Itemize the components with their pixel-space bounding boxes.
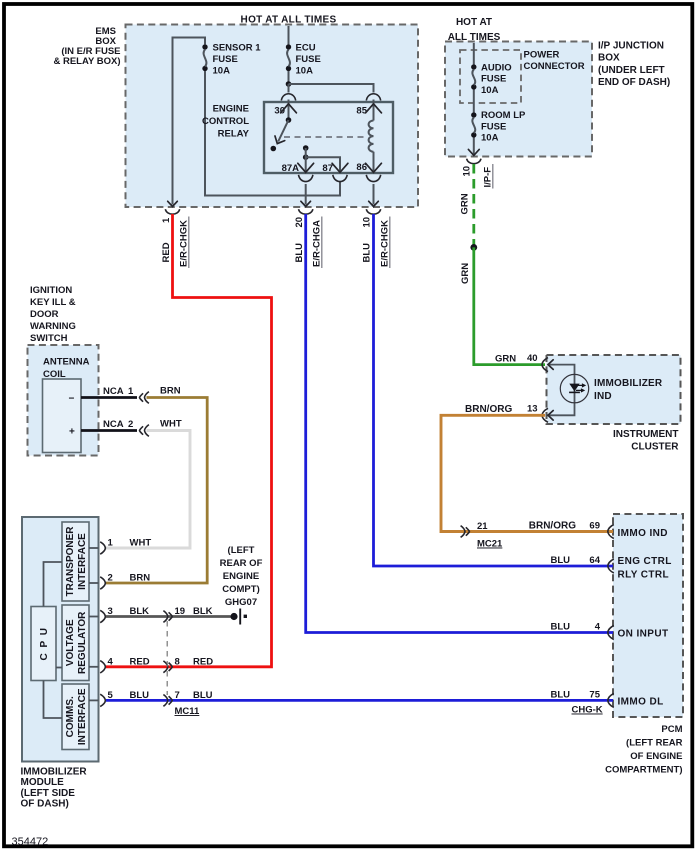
svg-text:RED: RED xyxy=(161,242,172,262)
label IGNITION KEY ILL and DOOR WARNING SWITCH xyxy=(30,285,76,344)
svg-text:RED: RED xyxy=(193,656,213,667)
cluster internal wire with left arrows xyxy=(548,360,575,420)
connector arc EMS pin 10 xyxy=(366,209,380,214)
svg-text:WHT: WHT xyxy=(130,538,152,549)
connector arc PCM pin 69 xyxy=(608,525,614,539)
svg-text:IND: IND xyxy=(594,391,612,402)
relay coil xyxy=(366,100,382,152)
node HOT AT ALL TIMES (EMS feed) xyxy=(241,15,337,26)
relay pin 87 label xyxy=(322,163,333,174)
wire relay bridge to pin 87 with down arrow xyxy=(306,157,348,172)
svg-text:ALL TIMES: ALL TIMES xyxy=(448,32,501,43)
svg-text:ENGINE: ENGINE xyxy=(223,571,259,582)
svg-text:BLU: BLU xyxy=(193,690,213,701)
connector arc below relay pin 87A xyxy=(299,175,313,182)
svg-text:21: 21 xyxy=(477,521,488,532)
svg-text:ANTENNA: ANTENNA xyxy=(43,357,90,368)
connector arc cluster pin 13 xyxy=(542,408,548,422)
antenna coil minus terminal xyxy=(69,394,75,405)
wire BRN from NCA1 to module pin 2 xyxy=(106,398,207,584)
svg-text:BLU: BLU xyxy=(550,555,570,566)
connector arc PCM pin 64 xyxy=(608,559,614,573)
svg-text:BLU: BLU xyxy=(550,689,570,700)
antenna coil body xyxy=(43,379,82,453)
svg-text:COMPT): COMPT) xyxy=(222,584,259,595)
label IMMOBILIZER MODULE location xyxy=(21,767,88,810)
PCM pin label ON INPUT xyxy=(618,629,669,640)
svg-text:BRN/ORG: BRN/ORG xyxy=(465,404,512,415)
svg-text:ENGINE: ENGINE xyxy=(213,104,249,115)
svg-text:10A: 10A xyxy=(213,66,231,77)
svg-text:RELAY: RELAY xyxy=(218,129,250,140)
svg-text:(LEFT SIDE: (LEFT SIDE xyxy=(21,788,76,799)
net label I/P-F (rotated, underlined) xyxy=(483,164,494,189)
net label CHG-K (underlined) xyxy=(572,705,603,716)
I/P junction box label xyxy=(598,41,670,89)
svg-text:CONNECTOR: CONNECTOR xyxy=(524,61,585,72)
svg-text:ROOM LP: ROOM LP xyxy=(481,110,526,121)
rotated label COMMS. INTERFACE xyxy=(65,688,88,745)
connector label MC11 (underlined) xyxy=(175,706,201,717)
wire ECU fuse to junction xyxy=(288,71,290,84)
svg-text:(UNDER LEFT: (UNDER LEFT xyxy=(598,65,665,76)
junction node below ECU fuse xyxy=(286,81,292,87)
pin label NCA 2 xyxy=(103,419,133,430)
rotated label TRANSPONDER INTERFACE xyxy=(65,526,88,597)
svg-text:AUDIO: AUDIO xyxy=(481,62,512,73)
power connector (dashed) xyxy=(460,50,521,103)
LED immobilizer indicator xyxy=(560,374,588,402)
wire junction to relay pin 85 xyxy=(289,84,374,93)
svg-text:VOLTAGE: VOLTAGE xyxy=(65,619,76,666)
EMS box (dashed, E/R fuse and relay box) xyxy=(126,25,419,208)
connector arc EMS pin 20 xyxy=(299,209,313,214)
wire relay pin 30 entry with up arrow xyxy=(281,100,297,121)
module pin 3 stub xyxy=(89,616,99,618)
svg-text:2: 2 xyxy=(108,573,113,584)
wire NCA 2 black stub xyxy=(81,429,137,432)
connector label MC21 (underlined) xyxy=(477,539,503,550)
I/P junction box (dashed) xyxy=(445,42,592,157)
antenna coil plus terminal xyxy=(69,427,75,438)
relay mechanical link (dashed) xyxy=(284,136,368,138)
wire sensor fuse top to EMS pin 1 exit xyxy=(168,38,205,207)
svg-text:OF ENGINE: OF ENGINE xyxy=(630,751,682,762)
svg-text:CONTROL: CONTROL xyxy=(202,116,249,127)
wire label GRN at cluster pin 40 xyxy=(495,354,516,365)
svg-text:1: 1 xyxy=(108,538,114,549)
connector arc above relay pin 30 xyxy=(281,94,295,101)
svg-text:END OF DASH): END OF DASH) xyxy=(598,77,670,88)
svg-text:87A: 87A xyxy=(282,163,300,174)
svg-text:BLU: BLU xyxy=(362,243,373,263)
wire label BLU and pin 64 xyxy=(550,555,600,566)
wire RED from EMS pin 1 to immobilizer module pin 4 xyxy=(106,214,272,667)
svg-text:IMMO IND: IMMO IND xyxy=(618,528,668,539)
dashed link MC11 connector xyxy=(166,621,168,695)
wire CPU to comms interface xyxy=(44,681,63,719)
svg-text:ON INPUT: ON INPUT xyxy=(618,629,669,640)
wire label BLU and pin 4 xyxy=(550,622,600,633)
connector arc below relay pin 87 xyxy=(333,175,347,182)
connector NCA pin 1 xyxy=(140,392,149,404)
pin label 8 and wire label RED xyxy=(175,656,214,667)
module pin 5 stub xyxy=(89,699,99,701)
wire label GRN (rotated, lower) xyxy=(460,263,471,284)
svg-text:I/P-F: I/P-F xyxy=(483,167,494,188)
label IMMOBILIZER IND xyxy=(594,378,663,402)
wire BLU module pin 5 to PCM pin 75 IMMO DL xyxy=(106,699,613,702)
relay switch contact node xyxy=(271,146,277,152)
svg-text:1: 1 xyxy=(128,386,134,397)
wire WHT from NCA2 to module pin 1 xyxy=(106,431,190,549)
svg-text:TRANSPONER: TRANSPONER xyxy=(65,526,76,597)
connector MC21 xyxy=(461,526,470,538)
svg-text:FUSE: FUSE xyxy=(481,74,506,85)
relay pin 30 label xyxy=(274,106,285,117)
wire label WHT (NCA2) xyxy=(160,419,182,430)
rotated wire label RED xyxy=(161,242,172,262)
svg-text:4: 4 xyxy=(108,656,114,667)
svg-text:COIL: COIL xyxy=(43,369,66,380)
svg-text:POWER: POWER xyxy=(524,50,560,61)
fuse ROOM LP FUSE 10A xyxy=(471,110,526,144)
connector arc module pin 1 xyxy=(100,542,105,554)
PCM box (dashed) xyxy=(613,514,683,717)
engine control relay box xyxy=(264,102,393,173)
pin label 5 and wire label BLU xyxy=(108,690,150,701)
svg-text:10A: 10A xyxy=(481,133,499,144)
svg-text:2: 2 xyxy=(128,419,133,430)
wire relay 87A to EMS pin 20 exit xyxy=(301,184,311,207)
svg-text:−: − xyxy=(69,394,75,405)
svg-text:8: 8 xyxy=(175,656,180,667)
rotated pin label 1 (EMS exit) xyxy=(161,217,172,223)
svg-text:FUSE: FUSE xyxy=(213,54,238,65)
svg-text:INSTRUMENT: INSTRUMENT xyxy=(613,429,679,440)
ground location label GHG07 xyxy=(220,545,263,608)
wire sensor fuse bottom to relay pin 87 xyxy=(205,71,340,196)
svg-text:I/P JUNCTION: I/P JUNCTION xyxy=(598,41,664,52)
label POWER CONNECTOR xyxy=(524,50,585,73)
label PCM location xyxy=(605,724,683,776)
svg-text:INTERFACE: INTERFACE xyxy=(77,533,88,590)
wire CPU to transponder interface xyxy=(44,562,63,607)
svg-text:WHT: WHT xyxy=(160,419,182,430)
connector arc module pin 5 xyxy=(100,694,105,706)
wire BLK module pin 3 to ground xyxy=(106,615,231,618)
connector arc PCM pin 75 xyxy=(608,693,614,707)
svg-text:REAR OF: REAR OF xyxy=(220,558,263,569)
module pin 4 stub xyxy=(89,666,99,668)
connector MC11 pin 8 xyxy=(163,661,172,673)
svg-text:REGULATOR: REGULATOR xyxy=(77,611,88,674)
svg-text:KEY ILL &: KEY ILL & xyxy=(30,297,76,308)
connector arc I/P pin 10 xyxy=(467,159,481,164)
svg-text:WARNING: WARNING xyxy=(30,321,76,332)
relay contact node 87A top xyxy=(303,145,309,151)
svg-text:10: 10 xyxy=(462,166,473,177)
connector arc module pin 3 xyxy=(100,610,105,622)
connector MC11 pin 19 xyxy=(163,611,172,623)
svg-text:20: 20 xyxy=(294,217,305,228)
PCM pin label ENG CTRL RLY CTRL xyxy=(618,556,672,581)
svg-text:FUSE: FUSE xyxy=(481,121,506,132)
connector MC11 pin 7 xyxy=(163,695,172,707)
svg-text:CLUSTER: CLUSTER xyxy=(631,441,679,452)
transponder interface box xyxy=(62,522,89,601)
svg-text:NCA: NCA xyxy=(103,419,124,430)
svg-text:ENG CTRL: ENG CTRL xyxy=(618,556,672,567)
relay label ENGINE CONTROL RELAY xyxy=(202,104,250,140)
svg-text:(LEFT REAR: (LEFT REAR xyxy=(626,738,683,749)
svg-text:69: 69 xyxy=(589,521,600,532)
rotated pin label 10 (EMS exit) xyxy=(362,217,373,228)
splice node on GRN wire xyxy=(470,244,477,251)
fuse ECU FUSE 10A xyxy=(286,43,321,77)
ground GHG07 xyxy=(230,609,247,625)
svg-text:C P U: C P U xyxy=(39,627,50,661)
connector arc below relay pin 86 xyxy=(366,175,380,182)
svg-text:IMMO DL: IMMO DL xyxy=(618,696,664,707)
node HOT AT ALL TIMES (I/P feed) xyxy=(448,17,501,43)
wire BLU from EMS pin 20 to PCM pin 4 ON INPUT xyxy=(306,214,613,633)
connector arc PCM pin 4 xyxy=(608,626,614,640)
svg-text:30: 30 xyxy=(274,106,285,117)
svg-text:GHG07: GHG07 xyxy=(225,597,257,608)
wire GRN dashed from I/P pin 10 to splice xyxy=(472,164,475,247)
svg-text:85: 85 xyxy=(356,106,367,117)
pin label 13 (cluster) xyxy=(527,404,538,415)
pin label 4 and wire label RED xyxy=(108,656,150,667)
pin label 19 and wire label BLK xyxy=(175,606,213,617)
PCM pin label IMMO IND xyxy=(618,528,668,539)
svg-text:GRN: GRN xyxy=(460,263,471,284)
svg-text:HOT AT: HOT AT xyxy=(456,17,492,28)
wire NCA 1 black stub xyxy=(81,396,137,399)
EMS box label xyxy=(53,26,120,67)
wire relay 86 to EMS pin 10 exit xyxy=(369,184,379,207)
svg-text:FUSE: FUSE xyxy=(296,54,321,65)
pin label 10 (I/P exit, rotated) xyxy=(462,166,473,177)
wire room fuse to I/P pin 10 exit xyxy=(468,138,479,156)
svg-text:COMPARTMENT): COMPARTMENT) xyxy=(605,765,682,776)
wire BRN/ORG cluster pin 13 to PCM pin 69 xyxy=(441,415,613,531)
svg-text:E/R-CHGA: E/R-CHGA xyxy=(312,220,323,267)
voltage regulator box xyxy=(62,605,89,681)
connector arc EMS pin 1 xyxy=(165,209,179,214)
label ANTENNA COIL xyxy=(43,357,90,381)
wire I/P feed to audio fuse xyxy=(473,43,475,64)
svg-text:NCA: NCA xyxy=(103,386,124,397)
label INSTRUMENT CLUSTER xyxy=(613,429,679,453)
rotated net label E/R-CHGK pin1 (underlined) xyxy=(179,217,190,269)
wire label BRN/ORG at cluster pin 13 xyxy=(465,404,512,415)
connector NCA pin 2 xyxy=(140,425,149,437)
pin label 21 (MC21) xyxy=(477,521,488,532)
connector arc module pin 4 xyxy=(100,661,105,673)
wire relay coil to pin 86 with down arrow xyxy=(366,152,382,173)
svg-text:BLU: BLU xyxy=(550,622,570,633)
CPU box xyxy=(31,607,56,681)
svg-text:64: 64 xyxy=(589,555,600,566)
pin label NCA 1 xyxy=(103,386,134,397)
wire EMS feed to ECU fuse xyxy=(288,26,290,44)
svg-text:10A: 10A xyxy=(296,66,314,77)
svg-text:COMMS.: COMMS. xyxy=(65,696,76,737)
rotated label VOLTAGE REGULATOR xyxy=(65,611,88,674)
module pin 2 stub xyxy=(89,582,99,584)
comms interface box xyxy=(62,684,89,750)
fuse AUDIO FUSE 10A xyxy=(471,62,512,96)
svg-text:BRN: BRN xyxy=(130,573,151,584)
antenna coil outer box (dashed) xyxy=(28,345,99,456)
pin label 2 and wire label BRN xyxy=(108,573,151,584)
svg-text:354472: 354472 xyxy=(12,836,49,848)
pin label 7 and wire label BLU xyxy=(175,690,213,701)
connector arc above relay pin 85 xyxy=(366,94,380,101)
relay switch arm xyxy=(272,120,288,146)
svg-text:MODULE: MODULE xyxy=(21,777,65,788)
svg-text:BRN/ORG: BRN/ORG xyxy=(529,521,576,532)
wire junction to relay pin 30 xyxy=(288,84,290,93)
svg-text:OF DASH): OF DASH) xyxy=(21,799,69,810)
svg-text:SENSOR 1: SENSOR 1 xyxy=(213,43,262,54)
wire label GRN (rotated, upper) xyxy=(460,193,471,214)
svg-text:PCM: PCM xyxy=(661,724,682,735)
svg-text:CHG-K: CHG-K xyxy=(572,705,603,716)
svg-text:4: 4 xyxy=(595,622,601,633)
pin label 1 and wire label WHT xyxy=(108,538,152,549)
svg-text:87: 87 xyxy=(322,163,333,174)
svg-text:GRN: GRN xyxy=(460,193,471,214)
rotated label C P U xyxy=(39,627,50,661)
wire audio fuse to room lamp fuse xyxy=(473,90,475,113)
svg-text:IMMOBILIZER: IMMOBILIZER xyxy=(594,378,663,389)
svg-text:BLK: BLK xyxy=(193,606,213,617)
svg-text:1: 1 xyxy=(161,217,172,223)
pin label 3 and wire label BLK xyxy=(108,606,150,617)
svg-text:BOX: BOX xyxy=(598,53,620,64)
svg-text:IMMOBILIZER: IMMOBILIZER xyxy=(21,767,88,778)
wire label BRN/ORG and pin 69 xyxy=(529,521,600,532)
svg-text:ECU: ECU xyxy=(296,43,316,54)
svg-text:13: 13 xyxy=(527,404,538,415)
svg-text:RLY CTRL: RLY CTRL xyxy=(618,570,670,581)
svg-text:HOT AT ALL TIMES: HOT AT ALL TIMES xyxy=(241,15,337,26)
pin label 40 (cluster) xyxy=(527,353,538,364)
svg-text:& RELAY BOX): & RELAY BOX) xyxy=(53,56,120,67)
relay junction node 87A-87 bridge xyxy=(303,154,309,160)
svg-text:RED: RED xyxy=(130,656,150,667)
svg-text:10: 10 xyxy=(362,217,373,228)
svg-text:19: 19 xyxy=(175,606,186,617)
wire label BLU and pin 75 xyxy=(550,689,600,700)
svg-text:40: 40 xyxy=(527,353,538,364)
svg-text:SWITCH: SWITCH xyxy=(30,333,68,344)
module pin 1 stub xyxy=(89,547,99,549)
rotated wire label BLU pin10 xyxy=(362,243,373,263)
instrument cluster box (dashed) xyxy=(547,355,681,424)
wire GRN solid from splice to cluster pin 40 xyxy=(474,247,545,364)
wire relay 87A contact to pin 87A with down arrow xyxy=(298,148,314,172)
connector arc module pin 2 xyxy=(100,577,105,589)
svg-text:MC21: MC21 xyxy=(477,539,503,550)
svg-text:GRN: GRN xyxy=(495,354,516,365)
svg-text:INTERFACE: INTERFACE xyxy=(77,688,88,745)
rotated pin label 20 (EMS exit) xyxy=(294,217,305,228)
rotated wire label BLU pin20 xyxy=(294,243,305,263)
relay switch pivot node xyxy=(286,117,292,123)
svg-text:E/R-CHGK: E/R-CHGK xyxy=(380,220,391,267)
immobilizer module box xyxy=(22,517,99,762)
wire CPU to voltage regulator xyxy=(56,667,62,669)
svg-text:IGNITION: IGNITION xyxy=(30,285,72,296)
PCM pin label IMMO DL xyxy=(618,696,664,707)
rotated net label E/R-CHGA (underlined) xyxy=(312,217,323,269)
diagram number 354472 xyxy=(12,836,49,848)
svg-text:MC11: MC11 xyxy=(175,706,201,717)
svg-text:E/R-CHGK: E/R-CHGK xyxy=(179,220,190,267)
svg-text:10A: 10A xyxy=(481,85,499,96)
wire label BRN (NCA1) xyxy=(160,386,181,397)
fuse SENSOR 1 FUSE 10A xyxy=(202,43,261,77)
svg-text:+: + xyxy=(69,427,75,438)
rotated net label E/R-CHGK pin10 (underlined) xyxy=(380,217,391,269)
relay pin 86 label xyxy=(356,162,367,173)
svg-text:DOOR: DOOR xyxy=(30,309,59,320)
svg-text:BRN: BRN xyxy=(160,386,181,397)
relay pin 87A label xyxy=(282,163,300,174)
svg-text:(LEFT: (LEFT xyxy=(228,545,255,556)
connector arc cluster pin 40 xyxy=(542,358,548,372)
svg-text:75: 75 xyxy=(589,689,600,700)
svg-text:7: 7 xyxy=(175,690,180,701)
svg-text:BLU: BLU xyxy=(294,243,305,263)
relay pin 85 label xyxy=(356,106,367,117)
wire BLU from EMS pin 10 to PCM pin 64 ENG CTRL RLY CTRL xyxy=(374,214,614,566)
